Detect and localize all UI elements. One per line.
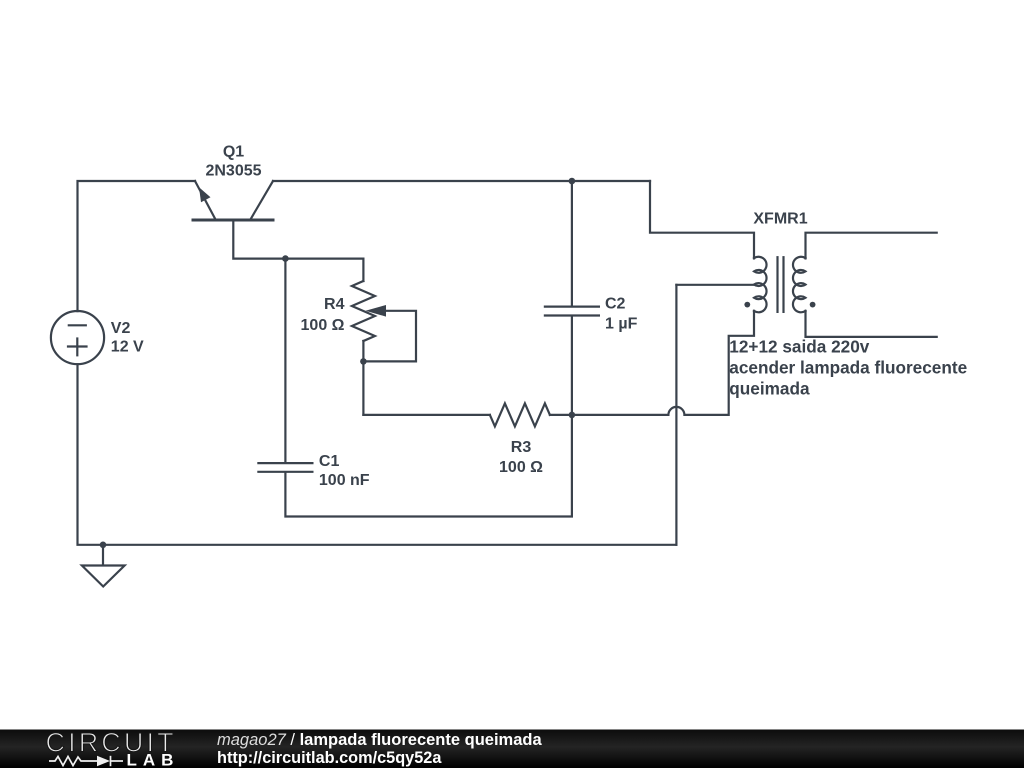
svg-text:magao27 / lampada fluorecente: magao27 / lampada fluorecente queimada: [217, 731, 542, 749]
wire secondary bottom lead: [806, 311, 937, 337]
svg-text:XFMR1: XFMR1: [753, 210, 807, 227]
transistor Q1 emitter diagonal: [195, 181, 215, 219]
wire center tap horizontal: [676, 284, 753, 286]
svg-text:12+12 saida 220v: 12+12 saida 220v: [729, 337, 869, 357]
svg-text:100 nF: 100 nF: [319, 472, 370, 489]
svg-text:R3: R3: [511, 439, 532, 456]
resistor R4 zigzag (potentiometer body): [352, 281, 375, 341]
svg-text:Q1: Q1: [223, 144, 244, 161]
transformer core: [776, 257, 778, 312]
capacitor C1 bottom lead and wire to R3 node: [285, 415, 572, 517]
svg-text:http://circuitlab.com/c5qy52a: http://circuitlab.com/c5qy52a: [217, 749, 442, 767]
transistor Q1 base bar: [193, 219, 273, 222]
wire corner down to transformer primary top: [650, 181, 754, 258]
svg-text:12 V: 12 V: [111, 339, 144, 356]
transformer XFMR1 secondary winding: [793, 257, 806, 313]
wire V2 bottom to ground rail: [78, 364, 677, 545]
transformer XFMR1 primary winding: [754, 257, 767, 313]
transistor Q1 emitter arrow: [199, 187, 211, 202]
svg-text:R4: R4: [324, 296, 345, 313]
svg-text:C2: C2: [605, 296, 626, 313]
wire center tap vertical to ground rail: [675, 285, 677, 545]
R4 bottom lead: [362, 341, 364, 415]
resistor R3 zigzag: [490, 403, 550, 426]
svg-text:1 µF: 1 µF: [605, 316, 638, 333]
node top rail / C2: [569, 178, 576, 185]
node R3 / C2 / primary: [569, 412, 576, 419]
svg-text:LAB: LAB: [127, 751, 180, 768]
node ground: [100, 542, 107, 549]
node base / C1 / R4: [282, 255, 289, 262]
capacitor C2 bottom lead: [571, 316, 573, 415]
capacitor C1 top lead: [284, 259, 286, 463]
R4 wiper arrow: [366, 305, 387, 317]
wire R3 to node: [550, 414, 572, 416]
capacitor C1 plates: [258, 462, 312, 464]
wire R4 bottom to R3: [363, 414, 490, 416]
svg-text:V2: V2: [111, 320, 131, 337]
svg-text:C1: C1: [319, 453, 340, 470]
node R4 wiper tie: [360, 358, 367, 365]
svg-text:queimada: queimada: [729, 379, 810, 399]
capacitor C2 plates: [545, 306, 599, 308]
svg-text:100 Ω: 100 Ω: [499, 459, 543, 476]
svg-text:100 Ω: 100 Ω: [301, 317, 345, 334]
wire top rail left from V2 to Q1 emitter: [78, 181, 196, 311]
voltage source V2: [51, 311, 104, 364]
logo resistor diode glyph: [49, 756, 123, 766]
ground symbol: [102, 545, 104, 566]
transistor Q1 collector diagonal: [251, 181, 273, 219]
wire node to transformer primary bottom with hop: [572, 311, 754, 415]
R4 wiper wire: [363, 311, 416, 362]
wire secondary top lead: [806, 233, 937, 259]
transformer phase dot primary: [744, 302, 750, 308]
wire top rail right from Q1 to corner: [273, 180, 650, 182]
svg-text:acender lampada fluorecente: acender lampada fluorecente: [729, 358, 967, 378]
capacitor C2 top lead: [571, 181, 573, 306]
transistor Q1 base lead: [233, 222, 285, 259]
svg-text:2N3055: 2N3055: [205, 163, 261, 180]
wire base node to R4 top: [285, 259, 363, 281]
transformer phase dot secondary: [810, 302, 816, 308]
